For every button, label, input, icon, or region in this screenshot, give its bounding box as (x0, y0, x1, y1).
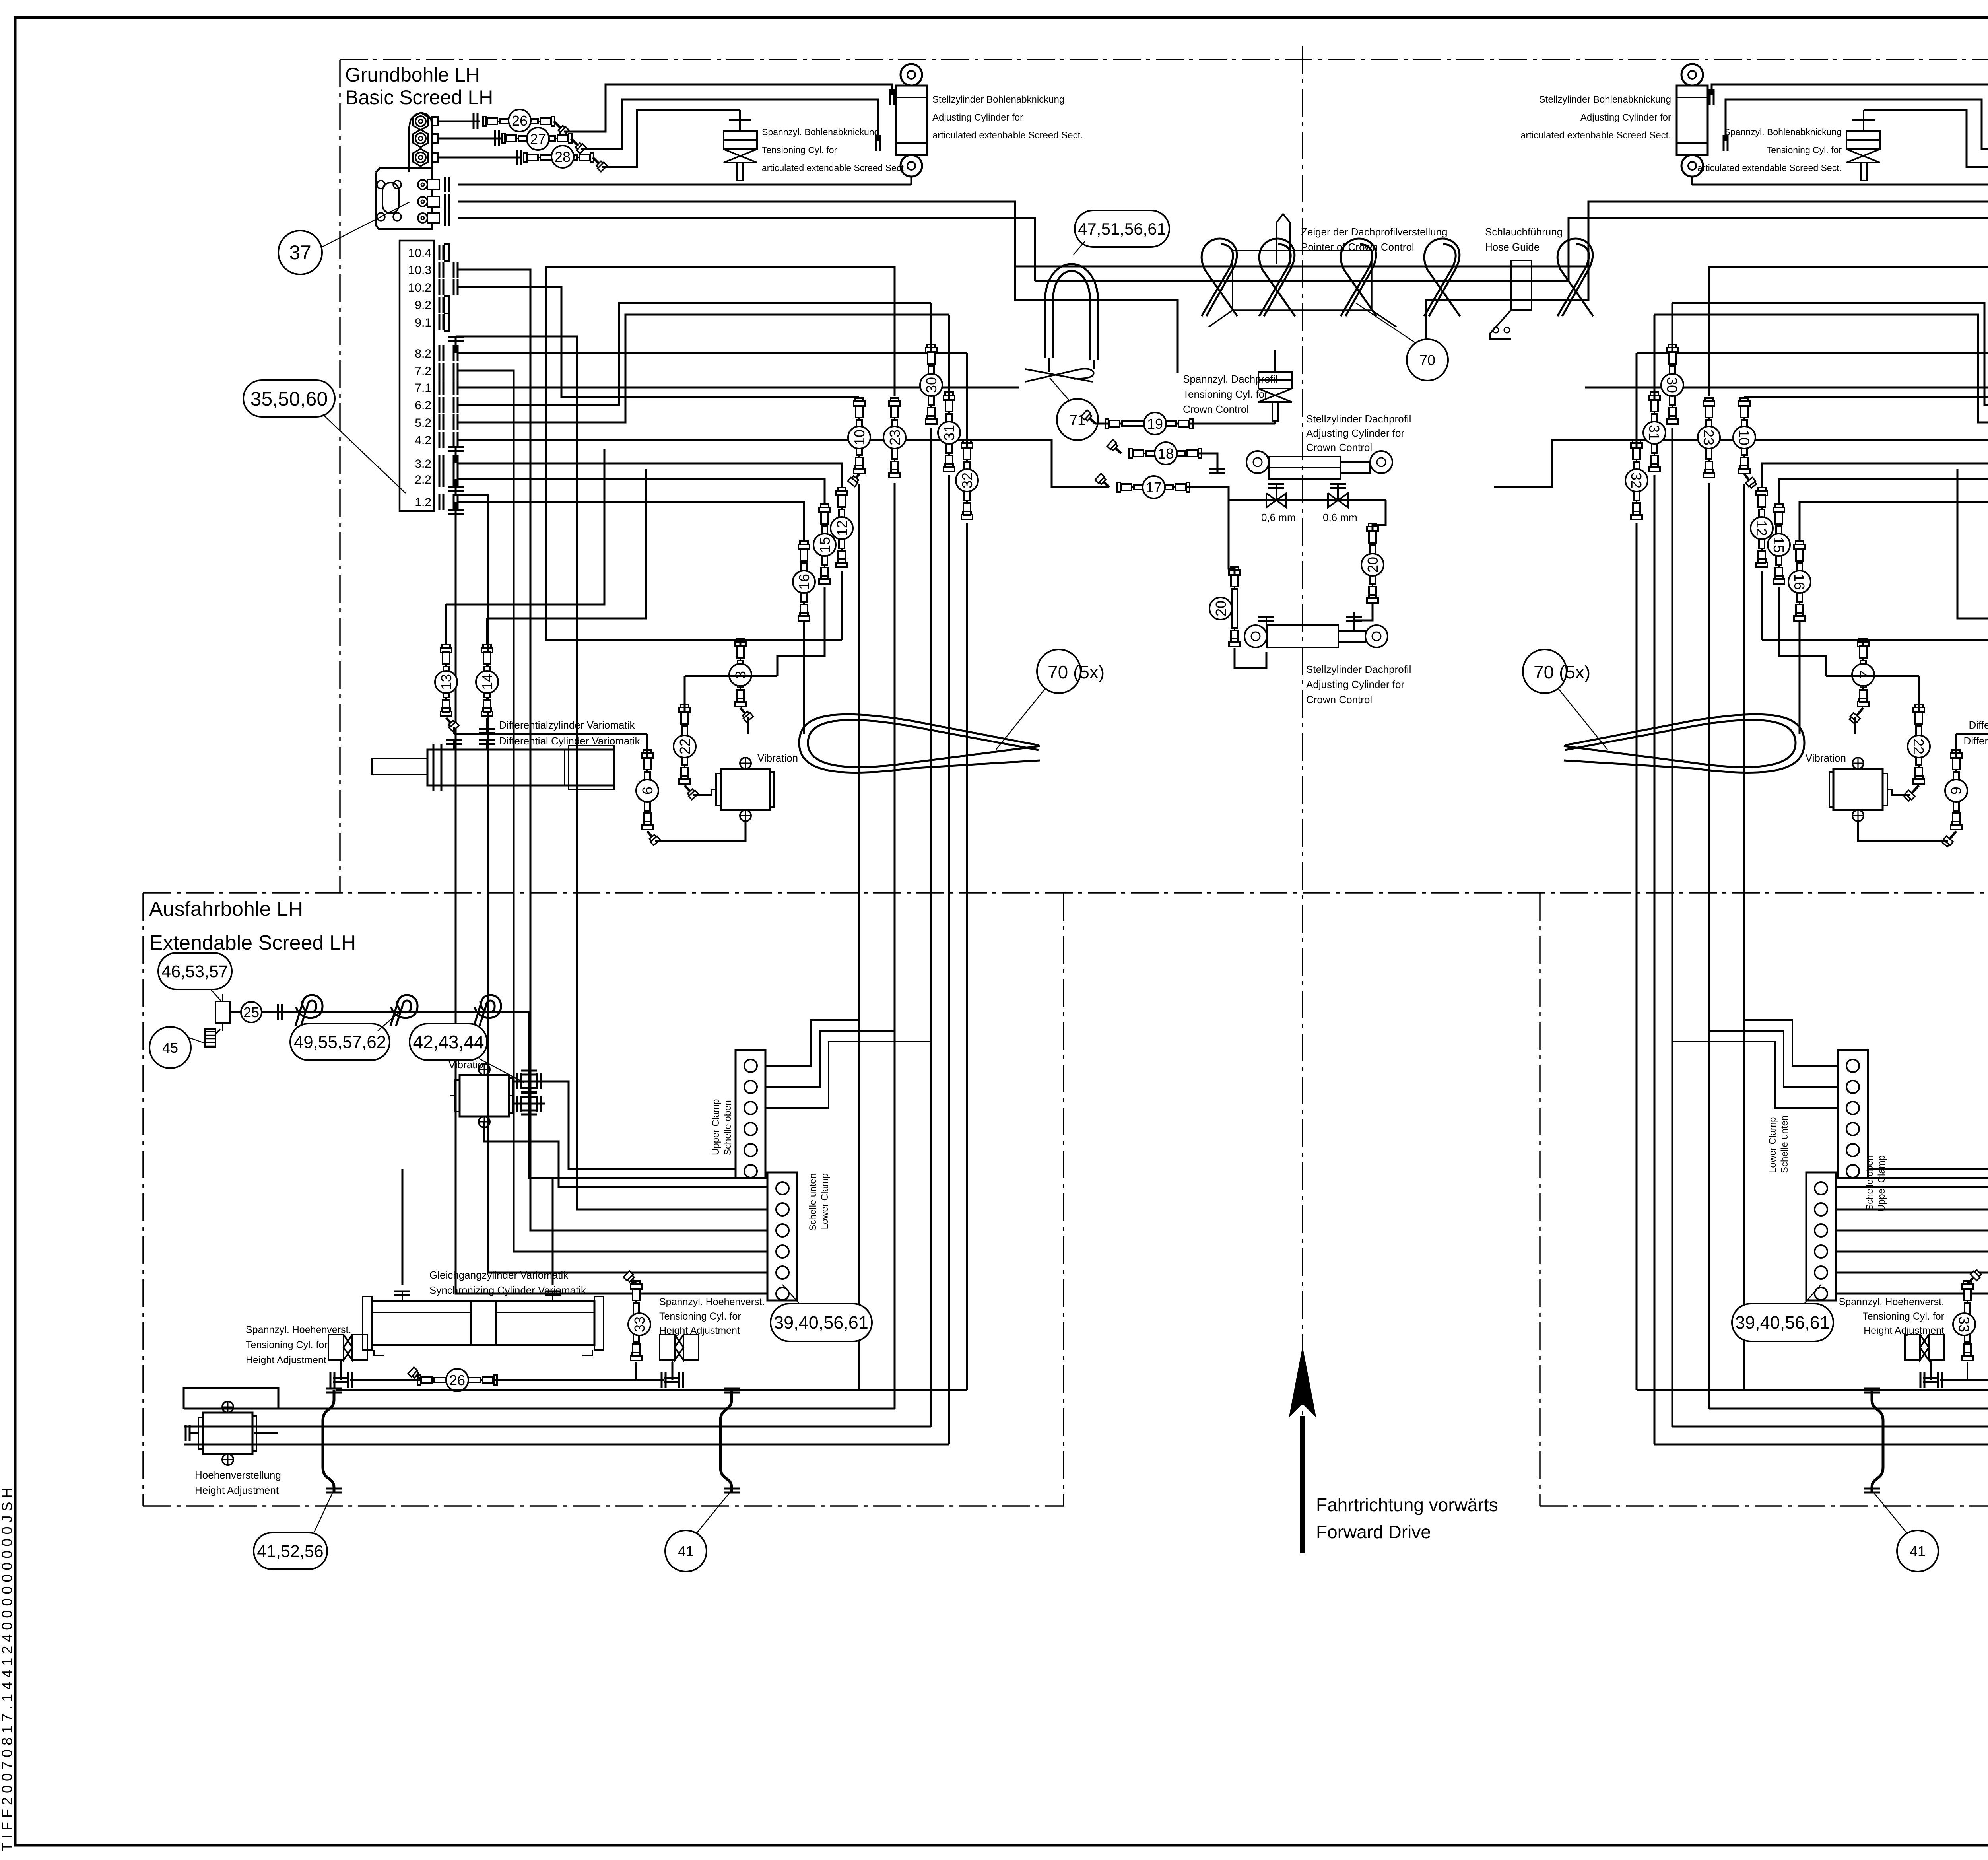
svg-text:6.2: 6.2 (415, 399, 431, 412)
pipe bracket right 41 RH (1872, 1390, 1883, 1492)
svg-text:23: 23 (887, 430, 903, 445)
svg-text:articulated extendable Screed: articulated extendable Screed Sect. (762, 163, 906, 173)
manifold tee fittings LH (455, 337, 457, 353)
svg-text:33: 33 (1956, 1316, 1972, 1332)
svg-text:3.2: 3.2 (415, 457, 431, 470)
hose 3 RS (1862, 640, 1864, 646)
svg-text:5.2: 5.2 (415, 416, 431, 430)
hose 31 RH (1654, 400, 1655, 467)
hose 16 LH (803, 549, 805, 616)
svg-text:Height Adjustment: Height Adjustment (246, 1355, 326, 1366)
Fahrtrichtung vorwaerts forward drive arrow (1300, 1416, 1305, 1553)
pointer housing (1233, 251, 1372, 310)
hose 18 (1112, 445, 1121, 453)
svg-text:Spannzyl. Hoehenverst.: Spannzyl. Hoehenverst. (246, 1324, 351, 1335)
svg-text:Vibration: Vibration (448, 1059, 489, 1071)
hose 14 LH (486, 618, 488, 644)
Stellzylinder Bohlenabknickung adjusting cylinder RH (1681, 64, 1703, 86)
mounting bracket plate 37/38 LH (376, 168, 432, 229)
balloon 70 center (1407, 339, 1448, 381)
hose 12 RH (1761, 495, 1763, 563)
stadium balloon 35,50,60 (243, 380, 335, 417)
svg-text:32: 32 (959, 472, 975, 488)
svg-text:articulated extenbable Screed: articulated extenbable Screed Sect. (1520, 130, 1671, 141)
balloon 41 RH (1897, 1530, 1938, 1572)
svg-text:30: 30 (923, 377, 940, 393)
svg-text:30: 30 (1664, 377, 1680, 393)
svg-text:31: 31 (941, 425, 957, 441)
hose 15 LH (824, 512, 825, 579)
svg-text:Lower Clamp: Lower Clamp (1767, 1117, 1778, 1173)
left tensioner height adjustment LH (328, 1335, 344, 1360)
svg-text:26: 26 (449, 1372, 465, 1388)
svg-text:6: 6 (1948, 787, 1964, 795)
supply line with clips LH (290, 1011, 509, 1013)
svg-text:Schelle oben: Schelle oben (1864, 1155, 1875, 1211)
svg-text:Upper Clamp: Upper Clamp (1876, 1155, 1887, 1211)
pipe bracket right 41 LH (720, 1390, 732, 1492)
dash-dot box Ausfahrbohle LH right edge (1063, 893, 1064, 1506)
stadium 39,40,56,61 LH (771, 1304, 872, 1341)
distribution manifold 35,50,60 LH (400, 241, 434, 511)
hose 19 (1095, 423, 1217, 425)
dash-dot box Ausfahrbohle LH bottom edge (143, 1505, 1064, 1507)
svg-text:Crown Control: Crown Control (1306, 694, 1372, 706)
svg-text:49,55,57,62: 49,55,57,62 (294, 1032, 386, 1052)
svg-text:20: 20 (1365, 557, 1381, 573)
svg-text:39,40,56,61: 39,40,56,61 (1735, 1312, 1830, 1333)
lower clamp strip RH (1806, 1172, 1836, 1300)
dash-dot box Ausfahrbohle RH left edge (1539, 893, 1541, 1506)
wiring cross to clamps LH (545, 1081, 736, 1169)
stadium 49,55,57,62 LH (290, 1024, 390, 1060)
svg-text:41,52,56: 41,52,56 (257, 1542, 323, 1561)
hose guide loops (1202, 244, 1233, 316)
svg-text:Spannzyl. Bohlenabknickung: Spannzyl. Bohlenabknickung (1724, 127, 1842, 137)
hex fitting block (port block) LH (409, 113, 432, 172)
screed hinge lines from bracket RH (1692, 184, 1988, 186)
svg-text:Forward Drive: Forward Drive (1316, 1522, 1431, 1542)
svg-text:Stellzylinder Dachprofil: Stellzylinder Dachprofil (1306, 413, 1411, 425)
svg-text:Zeiger der Dachprofilverstellu: Zeiger der Dachprofilverstellung (1301, 226, 1448, 238)
hose 30 RH (1672, 352, 1673, 420)
hose 10 RH (1743, 406, 1745, 469)
svg-text:Differentialzylinder Variomati: Differentialzylinder Variomatik (1969, 719, 1988, 731)
balloon 41 LH (665, 1530, 707, 1572)
svg-text:31: 31 (1646, 425, 1662, 441)
hose 22 RS (1918, 712, 1920, 779)
stadium 42,43,44 LH (410, 1024, 487, 1060)
svg-text:articulated extenbable Screed: articulated extenbable Screed Sect. (932, 130, 1083, 141)
svg-text:12: 12 (1753, 520, 1770, 536)
svg-text:Adjusting Cylinder for: Adjusting Cylinder for (1306, 427, 1404, 439)
vibration motor basic screed RS (1833, 769, 1883, 810)
svg-text:10: 10 (851, 430, 868, 445)
svg-text:Schelle oben: Schelle oben (722, 1100, 733, 1155)
svg-text:0,6 mm: 0,6 mm (1261, 511, 1296, 523)
hose 32 LH (966, 447, 968, 515)
balloon 70 (5x) LH (1037, 649, 1081, 693)
svg-text:9.1: 9.1 (415, 316, 431, 329)
svg-text:Crown Control: Crown Control (1183, 403, 1249, 415)
hose 6 LH (646, 758, 648, 825)
dash-dot shared horizontal boundary y=2245 (143, 892, 1988, 894)
end fitting and plug LH (215, 1001, 230, 1023)
svg-text:20: 20 (1213, 601, 1229, 616)
dash-dot box Grundbohle LH left edge (339, 60, 341, 893)
svg-text:22: 22 (1910, 739, 1927, 754)
svg-text:7.2: 7.2 (415, 365, 431, 378)
svg-text:Spannzyl. Hoehenverst.: Spannzyl. Hoehenverst. (1839, 1296, 1944, 1308)
vertical centerline (dash-dot) (1302, 46, 1303, 1529)
svg-text:Adjusting Cylinder for: Adjusting Cylinder for (1306, 678, 1404, 690)
height adjustment motor LH (203, 1413, 252, 1454)
svg-text:23: 23 (1701, 430, 1717, 445)
hose 33 RH (1967, 1289, 1968, 1356)
svg-text:13: 13 (438, 674, 454, 690)
svg-text:Height Adjustment: Height Adjustment (1864, 1325, 1944, 1336)
svg-text:Spannzyl. Hoehenverst.: Spannzyl. Hoehenverst. (659, 1296, 765, 1308)
Stellzylinder Bohlenabknickung adjusting cylinder LH (901, 64, 922, 86)
svg-text:Hose Guide: Hose Guide (1485, 241, 1540, 253)
throttle valves 0,6 mm (1229, 499, 1386, 501)
svg-text:3: 3 (732, 671, 749, 679)
upper clamp strip RH (1838, 1050, 1868, 1178)
stadium 39,40,56,61 RH (1732, 1304, 1833, 1341)
Stellzylinder Dachprofil lower cylinder (1244, 625, 1267, 647)
hose 22 LH (684, 712, 685, 779)
svg-text:Adjusting Cylinder for: Adjusting Cylinder for (1580, 112, 1671, 123)
svg-text:Extendable Screed LH: Extendable Screed LH (149, 931, 356, 954)
hose 20 right (1372, 531, 1373, 599)
svg-text:6: 6 (639, 787, 656, 795)
svg-text:Tensioning Cyl. for: Tensioning Cyl. for (762, 145, 837, 155)
svg-text:Gleichgangzylinder Variomatik: Gleichgangzylinder Variomatik (429, 1269, 569, 1281)
svg-text:17: 17 (1146, 479, 1162, 496)
stadium 46,53,57 LH (158, 953, 232, 989)
svg-text:2.2: 2.2 (415, 473, 431, 486)
svg-text:10.4: 10.4 (408, 247, 431, 260)
upper clamp feed lines RH (1744, 1020, 1838, 1066)
svg-text:70: 70 (1419, 352, 1435, 368)
riser crossbar line LH (336, 1389, 967, 1391)
svg-text:Tensioning Cyl. for: Tensioning Cyl. for (246, 1339, 328, 1351)
dash-dot box Ausfahrbohle RH bottom edge (1540, 1505, 1988, 1507)
riser crossbar line RH (1637, 1389, 1988, 1391)
wiring cross to clamps RH (1867, 1081, 1988, 1169)
svg-text:14: 14 (479, 674, 495, 690)
svg-text:Hoehenverstellung: Hoehenverstellung (195, 1469, 281, 1481)
hose 20 left (1234, 575, 1235, 642)
svg-text:42,43,44: 42,43,44 (413, 1032, 484, 1052)
svg-text:Adjusting Cylinder for: Adjusting Cylinder for (932, 112, 1023, 123)
svg-text:41: 41 (1910, 1543, 1926, 1559)
svg-text:articulated extendable Screed: articulated extendable Screed Sect. (1697, 163, 1842, 173)
svg-text:Upper Clamp: Upper Clamp (711, 1099, 721, 1155)
svg-text:Vibration: Vibration (1806, 752, 1846, 764)
bus lines height adjustment LH (184, 1408, 895, 1410)
svg-text:Stellzylinder Dachprofil: Stellzylinder Dachprofil (1306, 663, 1411, 675)
lower clamp strip LH (767, 1172, 797, 1300)
hose 16 RH (1799, 549, 1800, 616)
svg-text:10.2: 10.2 (408, 281, 431, 294)
hose 13 LH (445, 604, 447, 644)
hose 23 LH (894, 406, 895, 473)
upper clamp strip LH (736, 1050, 765, 1178)
right tensioner height adjustment LH (660, 1335, 675, 1360)
balloon 37 (278, 231, 322, 274)
manifold port lines RH (1836, 270, 1988, 1230)
svg-text:7.1: 7.1 (415, 381, 431, 395)
hose 23 RH (1708, 406, 1710, 473)
svg-text:Differentialzylinder Variomati: Differentialzylinder Variomatik (499, 719, 635, 731)
hose 25 LH (230, 1011, 290, 1013)
stadium 41,52,56 LH (254, 1533, 327, 1569)
hose coil loop 70 (5x) LH (799, 714, 1040, 772)
hose 30 LH (930, 352, 932, 420)
svg-text:19: 19 (1147, 416, 1163, 432)
svg-text:47,51,56,61: 47,51,56,61 (1078, 220, 1166, 238)
svg-text:Crown Control: Crown Control (1306, 441, 1372, 453)
svg-text:27: 27 (530, 131, 546, 147)
svg-text:Vibration: Vibration (757, 752, 798, 764)
hose 33 LH (635, 1289, 637, 1356)
svg-text:28: 28 (555, 149, 571, 165)
svg-text:26: 26 (512, 113, 528, 129)
svg-text:Tensioning Cyl. for: Tensioning Cyl. for (1767, 145, 1842, 155)
balloon 71 (1057, 399, 1098, 440)
svg-text:Spannzyl. Dachprofil: Spannzyl. Dachprofil (1183, 373, 1277, 385)
svg-text:Ausfahrbohle LH: Ausfahrbohle LH (149, 898, 303, 921)
svg-text:8.2: 8.2 (415, 347, 431, 360)
line to cross fittings LH (509, 1012, 529, 1073)
svg-text:39,40,56,61: 39,40,56,61 (774, 1312, 868, 1333)
svg-text:0,6 mm: 0,6 mm (1323, 511, 1357, 523)
screed hinge lines from bracket LH (458, 184, 911, 186)
svg-text:4.2: 4.2 (415, 434, 431, 447)
balloon 45 LH (149, 1027, 191, 1068)
svg-text:16: 16 (796, 574, 812, 590)
svg-text:Schlauchführung: Schlauchführung (1485, 226, 1563, 238)
svg-text:TIFF20070817.144124000000000JS: TIFF20070817.144124000000000JSH (0, 1484, 15, 1851)
cross fittings LH (513, 1081, 545, 1083)
P-clips 49,55,57,62 LH (295, 995, 322, 1026)
Spannzyl. Bohlenabknickung tensioning cylinder RH (1863, 110, 1864, 131)
svg-text:Synchronizing Cylinder Varioma: Synchronizing Cylinder Variomatik (429, 1284, 586, 1296)
svg-text:Spannzyl. Bohlenabknickung: Spannzyl. Bohlenabknickung (762, 127, 879, 137)
svg-text:37: 37 (289, 241, 311, 264)
svg-text:35,50,60: 35,50,60 (250, 388, 328, 410)
Spannzyl. Bohlenabknickung tensioning cylinder LH (739, 110, 741, 131)
svg-text:Schelle unten: Schelle unten (808, 1173, 818, 1231)
svg-text:10: 10 (1736, 430, 1752, 445)
svg-text:Pointer of Crown Control: Pointer of Crown Control (1301, 241, 1414, 253)
svg-text:41: 41 (678, 1543, 694, 1559)
svg-text:15: 15 (817, 537, 833, 553)
lines feeding hoses 13 14 LH (446, 449, 604, 604)
hose 26 height adjustment RH (1940, 1379, 1988, 1381)
svg-text:Tensioning Cyl. for: Tensioning Cyl. for (1862, 1311, 1944, 1322)
svg-text:32: 32 (1628, 472, 1644, 488)
crossed hoses at 71 (1025, 369, 1093, 382)
dash-dot box Ausfahrbohle LH left edge (142, 893, 144, 1506)
vibration motor basic screed LH (721, 769, 770, 810)
hose 3 LH (740, 640, 742, 646)
svg-text:Differential Cylinder Variomat: Differential Cylinder Variomatik (1963, 735, 1988, 747)
balloon 70 (5x) RH (1523, 649, 1567, 693)
svg-text:Grundbohle LH: Grundbohle LH (345, 64, 480, 86)
svg-text:70 (5x): 70 (5x) (1048, 662, 1105, 682)
svg-text:46,53,57: 46,53,57 (161, 962, 228, 981)
svg-text:Height Adjustment: Height Adjustment (195, 1484, 279, 1496)
svg-text:Lower Clamp: Lower Clamp (819, 1173, 830, 1229)
hose coil loop 70 (5x) RH (1564, 714, 1804, 772)
svg-text:70 (5x): 70 (5x) (1534, 662, 1590, 682)
hose 10 LH (858, 406, 860, 469)
right tensioner height adjustment RH (1929, 1335, 1944, 1360)
svg-text:33: 33 (631, 1316, 648, 1332)
bus lines height adjustment RH (1709, 1408, 1988, 1410)
pipe bracket left 41,52,56 LH (323, 1390, 334, 1492)
upper clamp feed lines LH (765, 1020, 859, 1066)
svg-text:12: 12 (834, 520, 850, 536)
hose bus line 2 across center (1035, 280, 1569, 282)
svg-text:4: 4 (1855, 671, 1871, 679)
svg-text:Fahrtrichtung vorwärts: Fahrtrichtung vorwärts (1316, 1495, 1498, 1515)
svg-text:9.2: 9.2 (415, 299, 431, 312)
svg-text:1.2: 1.2 (415, 496, 431, 509)
svg-text:18: 18 (1158, 445, 1174, 462)
svg-text:10.3: 10.3 (408, 264, 431, 277)
vibration motor extendable LH (460, 1075, 509, 1116)
hose 32 RH (1636, 447, 1637, 515)
svg-text:15: 15 (1771, 537, 1787, 553)
manifold port lines LH (458, 270, 767, 1230)
svg-text:16: 16 (1791, 574, 1807, 590)
svg-text:Stellzylinder Bohlenabknickung: Stellzylinder Bohlenabknickung (1539, 94, 1671, 105)
hose 12 LH (841, 495, 843, 563)
svg-text:Stellzylinder Bohlenabknickung: Stellzylinder Bohlenabknickung (932, 94, 1064, 105)
hose bus line 1 across center (1015, 266, 1588, 268)
svg-text:25: 25 (243, 1004, 259, 1020)
hose 15 RH (1778, 512, 1780, 579)
hose 17 (1100, 478, 1109, 487)
hairpin hose loop 47,51,56,61 (1053, 271, 1090, 360)
dash-dot box Grundbohle LH/RH top edge (340, 59, 1988, 60)
svg-text:Height Adjustment: Height Adjustment (659, 1325, 740, 1336)
Spannzyl. Dachprofil tensioning cylinder crown control (1274, 350, 1276, 372)
svg-text:Basic Screed LH: Basic Screed LH (345, 86, 493, 109)
hoses 26 27 28 LH (439, 121, 480, 122)
pointer of crown control symbol (1276, 214, 1290, 264)
Stellzylinder Dachprofil upper cylinder (1246, 451, 1269, 473)
svg-text:22: 22 (677, 739, 693, 754)
hose 26 height adjustment LH (350, 1379, 664, 1381)
hose 31 LH (948, 400, 950, 467)
svg-text:Tensioning Cyl. for: Tensioning Cyl. for (1183, 388, 1268, 400)
svg-text:Schelle unten: Schelle unten (1779, 1116, 1790, 1173)
hose guide bracket (1511, 260, 1532, 310)
svg-text:Tensioning Cyl. for: Tensioning Cyl. for (659, 1311, 741, 1322)
svg-text:45: 45 (162, 1040, 178, 1056)
hose 6 RS (1955, 758, 1957, 825)
stadium balloon 47,51,56,61 (1075, 210, 1169, 247)
